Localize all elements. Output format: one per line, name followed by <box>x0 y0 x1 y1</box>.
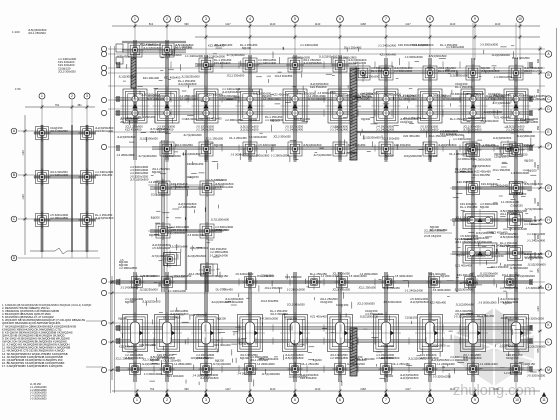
svg-text:2: 2 <box>166 398 168 402</box>
svg-text:8@200: 8@200 <box>524 158 533 162</box>
svg-text:JL7(1)300x600: JL7(1)300x600 <box>474 240 493 244</box>
svg-text:J-1 2400x2400: J-1 2400x2400 <box>330 128 349 132</box>
svg-text:J-5 3200x3200: J-5 3200x3200 <box>526 317 545 321</box>
svg-text:812: 812 <box>149 22 154 26</box>
svg-text:JCL3 300x550: JCL3 300x550 <box>261 299 279 303</box>
left axis bubbles <box>101 46 106 51</box>
svg-text:J-3 3000x3000: J-3 3000x3000 <box>467 254 486 258</box>
svg-text:1117: 1117 <box>405 22 411 26</box>
svg-text:950: 950 <box>537 125 540 130</box>
footing right band 473,150 <box>465 142 482 159</box>
footing right band 515,253 <box>506 244 525 263</box>
svg-text:17. KJWQDHSNBX KJWQDHSNBXS KJW: 17. KJWQDHSNBX KJWQDHSNBXS KJWQDHS <box>2 364 63 368</box>
svg-text:J-5 3200x3200: J-5 3200x3200 <box>402 94 421 98</box>
svg-text:1: 1 <box>41 94 43 98</box>
footing small top x295 <box>286 56 304 74</box>
svg-text:1: 1 <box>136 398 138 402</box>
svg-text:J-5 3200x3200: J-5 3200x3200 <box>509 227 528 231</box>
footing bottom top-row x137 <box>130 275 145 290</box>
footing bottom top-row x342 <box>335 275 350 290</box>
svg-text:DL-1 250x450: DL-1 250x450 <box>138 115 156 119</box>
inner row stubs <box>166 155 431 162</box>
right band extra annos <box>466 92 484 96</box>
svg-text:JCL1 250x500: JCL1 250x500 <box>151 193 169 197</box>
svg-text:L: L <box>548 340 550 344</box>
top dimension line <box>112 24 540 28</box>
svg-text:4200: 4200 <box>534 162 537 168</box>
footing inner top x508 <box>499 140 517 158</box>
svg-text:J-4 2600x2600: J-4 2600x2600 <box>494 75 513 79</box>
svg-text:J-4 2600x2600: J-4 2600x2600 <box>237 372 256 376</box>
svg-text:J-2 2800x2800: J-2 2800x2800 <box>178 205 197 209</box>
svg-text:JL2(3)250x500: JL2(3)250x500 <box>142 299 161 303</box>
column beam bottom 2 <box>166 272 168 382</box>
svg-text:J-4 2600x2600: J-4 2600x2600 <box>428 94 447 98</box>
svg-text:JCL1 250x500: JCL1 250x500 <box>455 240 473 244</box>
svg-text:8@200: 8@200 <box>313 358 322 362</box>
footing small top x167 <box>158 41 176 59</box>
footing bottom large x135 <box>120 312 150 354</box>
svg-text:2: 2 <box>71 94 73 98</box>
vertical grid axis lines <box>135 23 520 396</box>
svg-text:J-1 2400x2400: J-1 2400x2400 <box>348 61 367 65</box>
svg-text:KZ2 450x450: KZ2 450x450 <box>285 275 302 279</box>
footing bottom large x340 <box>325 312 355 354</box>
svg-text:8@200: 8@200 <box>457 253 466 257</box>
svg-text:JL7(1)300x600: JL7(1)300x600 <box>463 128 482 132</box>
footing bottom top-row x167 <box>160 275 175 290</box>
svg-text:KZ1 400x400: KZ1 400x400 <box>380 52 397 56</box>
svg-text:J-1 2400x2400: J-1 2400x2400 <box>180 97 199 101</box>
svg-text:J-4 2600x2600: J-4 2600x2600 <box>383 92 402 96</box>
svg-text:8@200: 8@200 <box>480 205 489 209</box>
svg-text:JL7(1)300x600: JL7(1)300x600 <box>138 154 157 158</box>
beam row top small left <box>122 50 186 52</box>
column beam top 3 <box>205 55 207 160</box>
footing inner top x250 <box>241 140 259 158</box>
column beam bottom 1 <box>134 272 136 382</box>
svg-text:8@200: 8@200 <box>271 118 280 122</box>
svg-text:J-2 2800x2800: J-2 2800x2800 <box>330 356 349 360</box>
svg-text:8@200: 8@200 <box>118 317 127 321</box>
svg-text:JL5(2)300x500: JL5(2)300x500 <box>285 356 304 360</box>
footing large top x386 <box>372 87 401 126</box>
svg-text:J-1 2400x2400: J-1 2400x2400 <box>437 362 456 366</box>
left wing beam mid <box>185 150 187 290</box>
footing bottom large x250 <box>235 312 265 354</box>
bottom dimension line <box>112 389 540 393</box>
svg-text:1143: 1143 <box>495 22 501 26</box>
footing small top x516 <box>507 64 525 82</box>
svg-text:1168: 1168 <box>360 22 366 26</box>
svg-text:KZ2 450x450: KZ2 450x450 <box>140 274 157 278</box>
svg-text:J-1 2400x2400: J-1 2400x2400 <box>453 137 472 141</box>
footing small top x250 <box>241 56 259 74</box>
svg-text:JL5(2)300x500: JL5(2)300x500 <box>253 92 272 96</box>
detail: grid verticals <box>42 100 87 258</box>
svg-text:3: 3 <box>86 94 88 98</box>
svg-text:1066: 1066 <box>493 387 499 391</box>
svg-text:J-3 3000x3000: J-3 3000x3000 <box>433 288 452 292</box>
svg-text:C10@150: C10@150 <box>491 254 504 258</box>
svg-text:KZ2 450x450: KZ2 450x450 <box>140 42 157 46</box>
svg-text:KZ1 400x400: KZ1 400x400 <box>429 272 446 276</box>
svg-text:1143: 1143 <box>270 387 276 391</box>
footing large top x473 <box>459 87 488 126</box>
svg-text:C10@150: C10@150 <box>320 300 333 304</box>
svg-text:JL7(1)300x600: JL7(1)300x600 <box>313 153 332 157</box>
svg-text:J-1 2400x2400: J-1 2400x2400 <box>185 54 204 58</box>
svg-text:4200: 4200 <box>534 198 537 204</box>
svg-text:1100: 1100 <box>22 150 25 156</box>
tick stubs on beams <box>120 62 528 373</box>
svg-text:1:50: 1:50 <box>15 87 21 91</box>
svg-text:1025: 1025 <box>537 164 540 170</box>
svg-text:J-5 3200x3200: J-5 3200x3200 <box>526 286 545 290</box>
column beam top 7 <box>385 58 387 160</box>
svg-text:DL-1 250x450: DL-1 250x450 <box>310 272 328 276</box>
footing bottom large x167 <box>152 312 182 354</box>
svg-text:JCL1 250x500: JCL1 250x500 <box>358 286 376 290</box>
svg-text:8@200: 8@200 <box>151 215 160 219</box>
svg-text:JL7(1)300x600: JL7(1)300x600 <box>443 97 462 101</box>
svg-text:2C25 C8@200: 2C25 C8@200 <box>424 234 442 238</box>
svg-text:8: 8 <box>429 398 431 402</box>
svg-text:JCL1 250x500: JCL1 250x500 <box>227 73 245 77</box>
svg-text:JCL3 300x550: JCL3 300x550 <box>287 303 305 307</box>
svg-text:J-2 2800x2800: J-2 2800x2800 <box>504 371 523 375</box>
svg-text:JL1(2)300x600: JL1(2)300x600 <box>211 300 230 304</box>
svg-text:JL2(3)250x500: JL2(3)250x500 <box>493 136 512 140</box>
beam row bottom large upper <box>115 327 532 329</box>
svg-text:J-1 2400x2400: J-1 2400x2400 <box>480 362 499 366</box>
svg-text:1143: 1143 <box>450 387 456 391</box>
svg-text:JL7(1)300x600: JL7(1)300x600 <box>226 53 245 57</box>
svg-text:11: 11 <box>542 398 546 402</box>
svg-text:JL2(3)250x500: JL2(3)250x500 <box>181 75 200 79</box>
svg-text:J-4 2600x2600: J-4 2600x2600 <box>257 362 276 366</box>
svg-text:JL7(1)300x600: JL7(1)300x600 <box>262 372 281 376</box>
svg-text:JL2(3)250x500: JL2(3)250x500 <box>438 143 457 147</box>
svg-text:5: 5 <box>294 398 296 402</box>
beam annotations bottom band <box>140 274 157 278</box>
column beam top 5 <box>294 55 296 160</box>
svg-text:KZ2 450x450: KZ2 450x450 <box>394 143 411 147</box>
detail: column beams <box>41 125 43 252</box>
svg-text:J-3 3000x3000: J-3 3000x3000 <box>144 372 163 376</box>
svg-text:J-2 2800x2800: J-2 2800x2800 <box>496 146 515 150</box>
svg-text:J-2 2800x2800: J-2 2800x2800 <box>338 56 357 60</box>
svg-text:KZ1 400x400: KZ1 400x400 <box>214 61 231 65</box>
svg-text:1:100: 1:100 <box>12 30 20 34</box>
svg-text:JCL3 300x550: JCL3 300x550 <box>270 312 288 316</box>
footing bottom top-row x434 <box>427 275 442 290</box>
svg-text:JL2(3)250x500: JL2(3)250x500 <box>446 133 465 137</box>
svg-text:JL2(3)250x500: JL2(3)250x500 <box>400 376 419 380</box>
svg-text:JCL3 300x550: JCL3 300x550 <box>357 302 375 306</box>
leader note right wing <box>424 229 452 239</box>
svg-text:JL2(3)250x500: JL2(3)250x500 <box>347 362 366 366</box>
svg-text:KZ1 400x400: KZ1 400x400 <box>119 344 136 348</box>
svg-text:8@200: 8@200 <box>240 356 249 360</box>
svg-text:J-5 3200x3200: J-5 3200x3200 <box>471 236 490 240</box>
svg-text:JL2(3)250x500: JL2(3)250x500 <box>509 209 528 213</box>
svg-text:JL1(2)300x600: JL1(2)300x600 <box>456 303 475 307</box>
stub rects top-left corner <box>116 44 123 52</box>
svg-text:J-4 2600x2600: J-4 2600x2600 <box>473 158 492 162</box>
detail: grid horizontals <box>18 131 100 258</box>
footing inner top x206 <box>197 140 215 158</box>
shear wall bottom <box>350 328 357 376</box>
svg-text:J-2 2800x2800: J-2 2800x2800 <box>50 216 69 220</box>
svg-text:3: 3 <box>205 17 207 21</box>
footing right band 516,188 <box>508 180 525 197</box>
svg-text:381: 381 <box>77 103 82 107</box>
svg-text:J-4 2600x2600: J-4 2600x2600 <box>121 116 140 120</box>
svg-text:KZ1 400x400: KZ1 400x400 <box>214 343 231 347</box>
svg-text:JL1(2)300x600: JL1(2)300x600 <box>118 75 137 79</box>
svg-text:2: 2 <box>166 17 168 21</box>
svg-text:J-1 2400x2400: J-1 2400x2400 <box>405 288 424 292</box>
svg-text:4200: 4200 <box>534 234 537 240</box>
svg-text:I: I <box>548 252 549 256</box>
svg-text:1100: 1100 <box>22 194 25 200</box>
svg-text:DL-1 250x450: DL-1 250x450 <box>529 97 547 101</box>
svg-text:JCL1 250x500: JCL1 250x500 <box>428 134 446 138</box>
footing left wing 207,231 <box>198 222 216 240</box>
svg-text:JCL1 250x500: JCL1 250x500 <box>174 44 192 48</box>
svg-text:KZ2 450x450: KZ2 450x450 <box>125 128 142 132</box>
svg-text:KZ2 450x450: KZ2 450x450 <box>403 134 420 138</box>
footing large top x206 <box>192 87 221 126</box>
labels above bottom-left footings <box>119 260 138 270</box>
svg-text:KZ1 400x400: KZ1 400x400 <box>310 315 327 319</box>
svg-text:JL2(3)250x500: JL2(3)250x500 <box>117 135 136 139</box>
svg-text:J-1 2400x2400: J-1 2400x2400 <box>491 184 510 188</box>
svg-text:8@200: 8@200 <box>248 118 257 122</box>
svg-text:DL-1 250x450: DL-1 250x450 <box>460 205 478 209</box>
footing inner top x430 <box>421 140 439 158</box>
svg-text:JL1(2)300x600: JL1(2)300x600 <box>142 362 161 366</box>
watermark logo <box>454 308 534 386</box>
footing left wing 207,188 <box>198 179 216 197</box>
svg-text:JL7(1)300x600: JL7(1)300x600 <box>152 254 171 258</box>
detail: dimension left <box>23 115 27 255</box>
column beam bottom 10 <box>515 272 517 382</box>
svg-text:J-1 2400x2400: J-1 2400x2400 <box>501 200 520 204</box>
svg-text:KZ2 450x450: KZ2 450x450 <box>513 94 530 98</box>
svg-text:J-3 3000x3000: J-3 3000x3000 <box>317 91 336 95</box>
svg-text:J-3 3000x3000: J-3 3000x3000 <box>297 92 316 96</box>
svg-text:DL-1 250x450: DL-1 250x450 <box>449 152 467 156</box>
svg-text:JCL3 300x550: JCL3 300x550 <box>472 173 490 177</box>
column beam top 4 <box>249 55 251 160</box>
bottom axis bubbles <box>133 396 140 403</box>
svg-text:KZ1 400x400: KZ1 400x400 <box>455 263 472 267</box>
column beam right band B <box>515 58 517 292</box>
footing bottom top-row x250 <box>243 275 258 290</box>
scattered labels middle <box>152 167 170 174</box>
svg-text:DL-1 250x450: DL-1 250x450 <box>477 314 495 318</box>
svg-text:JL1(2)300x600: JL1(2)300x600 <box>182 152 201 156</box>
right band beam row 3 <box>452 252 532 254</box>
svg-text:J-1 2400x2400: J-1 2400x2400 <box>300 43 319 47</box>
svg-text:J-1 2400x2400: J-1 2400x2400 <box>287 343 306 347</box>
label cluster left-mid <box>130 165 149 181</box>
svg-text:4200: 4200 <box>534 180 537 186</box>
svg-text:J-1 2400x2400: J-1 2400x2400 <box>168 289 187 293</box>
beam end section ticks <box>117 62 532 372</box>
svg-text:DL-1 250x450: DL-1 250x450 <box>348 143 366 147</box>
svg-text:J-4 2600x2600: J-4 2600x2600 <box>192 374 211 378</box>
svg-text:DL-1 250x450: DL-1 250x450 <box>302 362 320 366</box>
svg-text:J-4 2600x2600: J-4 2600x2600 <box>260 317 279 321</box>
label cluster topband <box>215 43 233 47</box>
scattered labels top <box>178 79 197 86</box>
svg-text:4200: 4200 <box>534 216 537 222</box>
svg-text:8@200: 8@200 <box>385 154 394 158</box>
svg-text:J-2 2800x2800: J-2 2800x2800 <box>116 153 135 157</box>
svg-text:JL1(2)300x600: JL1(2)300x600 <box>167 231 186 235</box>
footing inner top x167 <box>158 140 176 158</box>
svg-text:JL5(2)300x500: JL5(2)300x500 <box>289 374 308 378</box>
svg-text:C10@150: C10@150 <box>239 342 252 346</box>
right axis bubbles <box>545 51 551 57</box>
svg-text:KZ1 400x400: KZ1 400x400 <box>167 374 184 378</box>
svg-text:JL2(3)250x500: JL2(3)250x500 <box>95 216 114 220</box>
svg-text:JCL3 300x550: JCL3 300x550 <box>512 56 530 60</box>
svg-text:JL1(2)300x600: JL1(2)300x600 <box>480 271 499 275</box>
footing right band landscape 480,253 <box>461 241 500 266</box>
svg-text:C10@150: C10@150 <box>261 273 274 277</box>
shear wall top <box>350 68 357 160</box>
footing bottom low-row x340 <box>333 362 348 377</box>
svg-text:J-1 2400x2400: J-1 2400x2400 <box>378 44 397 48</box>
svg-text:C10@150: C10@150 <box>515 152 528 156</box>
svg-text:3: 3 <box>205 398 207 402</box>
svg-text:J-2 2800x2800: J-2 2800x2800 <box>174 362 193 366</box>
svg-text:8@200: 8@200 <box>429 154 438 158</box>
detail: break line bottom <box>30 248 98 254</box>
svg-text:JL2(3)250x500: JL2(3)250x500 <box>431 358 450 362</box>
svg-text:KZ2 450x450: KZ2 450x450 <box>412 43 429 47</box>
beam annotations top band <box>118 54 135 58</box>
svg-text:J-5 3200x3200: J-5 3200x3200 <box>433 374 452 378</box>
detail: footings <box>34 125 51 142</box>
horizontal grid axis lines <box>108 49 545 370</box>
column beam bottom 4 <box>249 272 251 382</box>
column beam right band A <box>472 58 474 292</box>
footing left wing lower B <box>199 262 215 278</box>
svg-text:JL7(1)300x600: JL7(1)300x600 <box>308 97 327 101</box>
column beam top 8 <box>429 58 431 160</box>
beam row top large lower <box>115 112 532 114</box>
svg-text:J-4 2600x2600: J-4 2600x2600 <box>148 180 167 184</box>
footing left wing lower A <box>162 251 179 268</box>
column beam right band edge <box>456 150 458 292</box>
svg-text:4: 4 <box>177 17 179 21</box>
svg-text:C10@150: C10@150 <box>511 191 524 195</box>
micro segments speckle <box>117 46 537 387</box>
svg-text:JL2(3)250x500: JL2(3)250x500 <box>472 164 491 168</box>
svg-text:J-1 2400x2400: J-1 2400x2400 <box>376 128 395 132</box>
footing bottom low-row x295 <box>288 362 303 377</box>
svg-text:JL1(2)300x600: JL1(2)300x600 <box>362 135 381 139</box>
svg-text:C10@150: C10@150 <box>405 315 418 319</box>
svg-text:JL1(2)300x600: JL1(2)300x600 <box>527 262 546 266</box>
footing bottom large x386 <box>371 312 401 354</box>
svg-text:JCL1 250x500: JCL1 250x500 <box>120 120 138 124</box>
svg-text:JCL3 300x550: JCL3 300x550 <box>273 135 291 139</box>
footing large top x135 <box>121 87 150 126</box>
footing bottom low-row x473 <box>466 362 481 377</box>
svg-text:JL1(2)300x600: JL1(2)300x600 <box>408 357 427 361</box>
svg-text:1168: 1168 <box>360 387 366 391</box>
svg-text:JL7(1)300x600: JL7(1)300x600 <box>211 217 230 221</box>
svg-text:JL1(2)300x600: JL1(2)300x600 <box>492 53 511 57</box>
detail: middle beam <box>71 125 72 252</box>
svg-text:825: 825 <box>537 268 540 273</box>
svg-text:JCL1 250x500: JCL1 250x500 <box>115 356 133 360</box>
svg-text:J-4 2600x2600: J-4 2600x2600 <box>500 286 519 290</box>
svg-text:4: 4 <box>249 398 251 402</box>
svg-text:1117: 1117 <box>225 387 231 391</box>
footing bottom large x206 <box>191 312 221 354</box>
svg-text:KZ2 450x450: KZ2 450x450 <box>207 93 224 97</box>
svg-text:JL2(3)250x500: JL2(3)250x500 <box>240 128 259 132</box>
svg-text:1100: 1100 <box>537 306 540 312</box>
svg-text:KZ1 400x400: KZ1 400x400 <box>148 97 165 101</box>
svg-text:J-5 3200x3200: J-5 3200x3200 <box>395 274 414 278</box>
svg-text:JL2(3)250x500: JL2(3)250x500 <box>222 90 241 94</box>
svg-text:DL-1 250x450: DL-1 250x450 <box>164 359 182 363</box>
svg-text:JL5(2)300x500: JL5(2)300x500 <box>454 288 473 292</box>
svg-text:1117: 1117 <box>225 22 231 26</box>
svg-text:JCL1 250x500: JCL1 250x500 <box>28 31 46 35</box>
svg-text:J-2 2800x2800: J-2 2800x2800 <box>210 250 229 254</box>
footing inner top x470 <box>461 140 479 158</box>
svg-text:JL5(2)300x500: JL5(2)300x500 <box>428 54 447 58</box>
svg-text:J-3 3000x3000: J-3 3000x3000 <box>211 228 230 232</box>
left wing beam col 2 <box>206 140 208 292</box>
svg-text:JL1(2)300x600: JL1(2)300x600 <box>169 245 188 249</box>
svg-text:JCL3 300x550: JCL3 300x550 <box>524 69 542 73</box>
svg-text:KZ2 450x450: KZ2 450x450 <box>457 180 474 184</box>
column beam bottom 3 <box>205 272 207 382</box>
column beam bottom 8 <box>429 272 431 382</box>
svg-text:KZ2 450x450: KZ2 450x450 <box>294 117 311 121</box>
footing bottom low-row x250 <box>243 362 258 377</box>
svg-text:8@200: 8@200 <box>384 374 393 378</box>
svg-text:JL1(2)300x600: JL1(2)300x600 <box>517 134 536 138</box>
svg-text:C10@150: C10@150 <box>186 175 199 179</box>
svg-text:KZ1 400x400: KZ1 400x400 <box>205 117 222 121</box>
svg-text:JL7(1)300x600: JL7(1)300x600 <box>130 177 149 181</box>
svg-text:JL2(3)250x500: JL2(3)250x500 <box>500 316 519 320</box>
svg-text:8: 8 <box>429 17 431 21</box>
svg-text:DL-1 250x450: DL-1 250x450 <box>404 116 422 120</box>
svg-text:J-1 2400x2400: J-1 2400x2400 <box>258 61 277 65</box>
beam row mid extra <box>356 131 532 133</box>
svg-text:JCL1 250x500: JCL1 250x500 <box>265 286 283 290</box>
svg-text:DL-1 250x450: DL-1 250x450 <box>357 357 375 361</box>
detail: left bubbles <box>11 128 17 134</box>
svg-text:J-5 3200x3200: J-5 3200x3200 <box>454 314 473 318</box>
footing inner top x340 <box>331 140 349 158</box>
svg-text:KZ2 450x450: KZ2 450x450 <box>491 231 508 235</box>
footing small top x430 <box>421 64 439 82</box>
column beam top 2 <box>166 40 168 160</box>
